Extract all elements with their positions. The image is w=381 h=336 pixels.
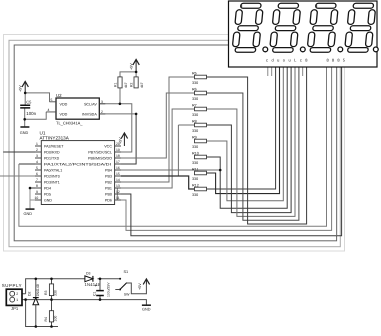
IC U2 — [46, 93, 105, 125]
wire R6 right to display — [207, 67, 299, 220]
svg-text:+5V: +5V — [138, 283, 142, 290]
wire digit1 net d1 — [19, 67, 327, 226]
digit 4 — [344, 3, 376, 52]
svg-text:VDD: VDD — [60, 102, 68, 106]
svg-text:330: 330 — [192, 113, 198, 117]
+5V arrow at U1 VCC — [121, 133, 127, 146]
+5V arrow above R2 — [133, 59, 139, 72]
wire SCL net U2.3 to U1.19 — [99, 104, 132, 152]
wire R1 bottom — [119, 88, 121, 104]
svg-text:330: 330 — [192, 129, 198, 133]
resistor R6 — [192, 87, 207, 101]
capacitor C5 — [20, 99, 36, 116]
svg-text:R1: R1 — [114, 83, 118, 87]
wire U1 pin8 stub link — [30, 187, 35, 189]
decimal point dp4 — [373, 47, 378, 52]
svg-text:SUPPLY: SUPPLY — [2, 283, 22, 288]
svg-text:9: 9 — [36, 190, 38, 194]
svg-text:4k7: 4k7 — [124, 82, 128, 88]
svg-text:5: 5 — [51, 98, 53, 102]
resistor R11 — [192, 167, 207, 181]
svg-text:PA1/XTAL2/PCINT9/SDA/DI: PA1/XTAL2/PCINT9/SDA/DI — [44, 162, 111, 166]
svg-text:330: 330 — [192, 193, 198, 197]
+5V arrow top-left — [22, 81, 28, 93]
GND symbol below U1 — [24, 209, 35, 216]
wire U1 pin2 left — [3, 151, 35, 153]
+5V arrow supply — [143, 279, 149, 285]
wire R12 right to display — [207, 67, 276, 189]
capacitor C1 — [93, 279, 111, 300]
wire pin13 to R7 — [121, 109, 195, 188]
resistor R4 — [44, 300, 57, 327]
wire U1 pin13 to pin11 row link — [116, 188, 118, 200]
svg-text:JP1: JP1 — [11, 306, 19, 311]
resistor R9 — [192, 135, 207, 149]
svg-text:16: 16 — [116, 166, 120, 170]
svg-text:4: 4 — [48, 108, 50, 112]
svg-text:330: 330 — [192, 177, 198, 181]
wire R9 right to display — [207, 67, 284, 201]
svg-text:R8: R8 — [192, 119, 197, 123]
svg-text:R2: R2 — [130, 83, 134, 87]
svg-text:GND: GND — [142, 307, 151, 311]
svg-text:R9: R9 — [192, 135, 197, 139]
svg-text:GND: GND — [24, 212, 33, 216]
wire gnd2 rail — [26, 300, 58, 327]
sheet frame outer — [4, 35, 345, 252]
wire C5 stems — [24, 93, 27, 127]
svg-text:GND: GND — [20, 131, 29, 135]
decimal point dp2 — [300, 47, 305, 52]
right pin stubs — [115, 146, 121, 200]
svg-text:7: 7 — [36, 178, 38, 182]
svg-text:VDD: VDD — [60, 112, 68, 116]
resistor R2 — [130, 77, 145, 88]
wire SDA net U2.2 to R2 junction — [99, 113, 136, 115]
svg-text:PD5: PD5 — [44, 192, 51, 196]
resistor R8 — [192, 119, 207, 133]
svg-text:PB4: PB4 — [105, 168, 112, 172]
junction D2 bottom rail — [35, 325, 38, 328]
svg-text:4k7: 4k7 — [140, 82, 144, 88]
wire digit2 net d2 U1.11 — [121, 67, 332, 230]
connector JP1 — [2, 283, 22, 311]
wire R10 right to display — [207, 67, 288, 208]
svg-text:PB1: PB1 — [105, 186, 112, 190]
wire R5 right to display — [207, 67, 307, 224]
svg-text:R5: R5 — [192, 71, 197, 75]
svg-text:PB7/SCK/SCL: PB7/SCK/SCL — [88, 150, 112, 154]
svg-text:330: 330 — [53, 290, 57, 296]
wire top rail +V — [26, 279, 85, 294]
wire pin15 dark to R12 — [121, 176, 195, 189]
wire R1 top / R2 top +5V bar — [120, 72, 136, 77]
svg-text:R3: R3 — [44, 290, 48, 295]
svg-text:S1: S1 — [124, 270, 129, 274]
display module LED1 — [229, 1, 379, 67]
svg-text:100: 100 — [53, 316, 57, 322]
svg-text:1N4148: 1N4148 — [36, 284, 40, 296]
decimal point dp3 — [338, 47, 343, 52]
svg-text:PB0: PB0 — [105, 192, 112, 196]
digit 1 — [232, 3, 264, 52]
digit orientation dots — [241, 5, 243, 7]
junction C5 bottom / U2 GND — [23, 118, 26, 121]
svg-text:SCL/AV: SCL/AV — [84, 102, 97, 106]
svg-text:PD4: PD4 — [44, 186, 51, 190]
resistor R3 — [44, 279, 57, 300]
wire R8 drop — [178, 125, 194, 176]
svg-text:U2: U2 — [56, 93, 62, 98]
svg-text:330: 330 — [192, 145, 198, 149]
junction R10 net / U1 pin16 wire — [219, 169, 222, 172]
svg-text:VCC: VCC — [104, 144, 112, 148]
svg-text:D2: D2 — [28, 291, 32, 296]
digit 2 — [269, 3, 301, 52]
junction C1 bottom — [99, 298, 102, 301]
svg-text:R10: R10 — [192, 151, 199, 155]
wire U1 pin6 left — [0, 175, 35, 177]
wire R11 right to display — [207, 67, 280, 194]
resistor R10 — [192, 151, 207, 165]
wire pin16 to R10 right side — [121, 169, 220, 171]
resistor R1 — [114, 77, 129, 88]
svg-text:PD1/TXD: PD1/TXD — [44, 156, 60, 160]
GND symbol supply — [142, 305, 151, 311]
wire R8 right to display — [207, 67, 292, 213]
svg-text:10: 10 — [35, 196, 39, 200]
wire SDA vertical to U1.17 — [121, 114, 136, 164]
svg-text:2: 2 — [16, 292, 18, 296]
GND symbol below C5 — [20, 127, 30, 135]
svg-text:14: 14 — [116, 178, 120, 182]
switch S1 — [115, 270, 146, 297]
digit 3 — [307, 3, 339, 52]
svg-text:11: 11 — [116, 196, 120, 200]
wire U1 pin4 to digit1 net — [19, 163, 35, 165]
svg-text:15: 15 — [116, 172, 120, 176]
left pin stubs — [35, 146, 41, 200]
svg-text:PD3/INT1: PD3/INT1 — [44, 180, 60, 184]
svg-text:PA0/XTAL1: PA0/XTAL1 — [44, 168, 62, 172]
svg-text:19: 19 — [116, 148, 120, 152]
svg-text:100n: 100n — [26, 111, 36, 116]
resistor R12 — [192, 183, 207, 197]
wire pin14 to R5 — [121, 77, 195, 182]
junction R4 bottom rail — [50, 325, 53, 328]
wire bottom rail — [26, 300, 147, 306]
wire U2 pin4 to GND — [25, 112, 47, 119]
pin numbers left — [35, 142, 39, 200]
display stub pins — [268, 67, 303, 76]
pin numbers right — [116, 142, 120, 200]
resistor R7 — [192, 103, 207, 117]
svg-text:+5V: +5V — [19, 85, 23, 92]
wire R7 right to display — [207, 67, 296, 216]
wire U1 pin8/pin10 to GND — [30, 188, 35, 209]
svg-text:R7: R7 — [192, 103, 197, 107]
svg-text:5: 5 — [36, 166, 38, 170]
sheet frame inner — [14, 45, 336, 241]
svg-text:4: 4 — [36, 160, 38, 164]
svg-text:1N4148: 1N4148 — [85, 282, 101, 287]
junction U1 pin8 GND — [29, 187, 32, 190]
svg-text:PD0/RXD: PD0/RXD — [44, 150, 60, 154]
svg-text:INV/SDA: INV/SDA — [82, 112, 97, 116]
svg-text:PD2/INT0: PD2/INT0 — [44, 174, 60, 178]
svg-text:SW: SW — [124, 293, 130, 297]
svg-text:2: 2 — [101, 110, 103, 114]
diode D3 — [85, 272, 101, 288]
svg-text:330: 330 — [192, 97, 198, 101]
svg-text:D3: D3 — [86, 272, 91, 276]
junction R1 R2 tops +5V — [135, 71, 138, 74]
svg-text:17: 17 — [116, 160, 120, 164]
svg-text:TL_CH0341A_: TL_CH0341A_ — [56, 120, 83, 125]
junction R1 bottom / SCL net — [119, 103, 122, 106]
svg-text:R4: R4 — [44, 317, 48, 322]
wire +5V rail to C5/U2 — [25, 93, 49, 102]
svg-text:330: 330 — [192, 81, 198, 85]
junction R2 bottom / SDA net — [135, 113, 138, 116]
resistor R5 — [192, 71, 207, 85]
svg-text:8: 8 — [36, 184, 38, 188]
svg-text:+5V: +5V — [119, 137, 123, 144]
junction R3 bottom / R4 top — [50, 298, 53, 301]
svg-text:PB3: PB3 — [105, 174, 112, 178]
svg-text:PB2: PB2 — [105, 180, 112, 184]
svg-text:R11: R11 — [192, 167, 199, 171]
svg-text:6: 6 — [36, 172, 38, 176]
svg-text:+5V: +5V — [130, 63, 134, 70]
svg-text:330: 330 — [192, 161, 198, 165]
svg-text:1: 1 — [16, 298, 18, 302]
svg-text:ATTINY2313A: ATTINY2313A — [40, 136, 70, 141]
svg-text:C1: C1 — [93, 291, 97, 296]
junction R3 top on +V rail — [50, 278, 53, 281]
IC U1 ATTINY2313A — [35, 130, 122, 204]
junction JP1 pin1 node — [24, 298, 27, 301]
junction C1 top on +V rail — [99, 278, 102, 281]
supply rails — [22, 279, 146, 327]
svg-text:3: 3 — [101, 100, 103, 104]
wire digit4 net d4 — [336, 67, 338, 236]
svg-text:C5: C5 — [26, 99, 32, 104]
sheet frame middle — [9, 40, 340, 246]
svg-text:100u/25V: 100u/25V — [107, 282, 111, 297]
svg-text:R12: R12 — [192, 183, 199, 187]
svg-text:1: 1 — [36, 142, 38, 146]
wire digit3 net d3 U1.12 — [121, 67, 342, 236]
svg-text:18: 18 — [116, 154, 120, 158]
svg-text:PA2/RESET: PA2/RESET — [44, 144, 64, 148]
pin labels inside — [44, 144, 111, 202]
diode D2 — [28, 279, 41, 327]
decimal point dp1 — [263, 47, 268, 52]
junction D2 top on +V rail — [35, 278, 38, 281]
svg-text:3: 3 — [36, 154, 38, 158]
svg-text:12: 12 — [116, 190, 120, 194]
svg-text:GND: GND — [44, 198, 52, 202]
junction +5V / C5 top — [24, 92, 27, 95]
wire U1 right bus to resistors — [121, 77, 220, 188]
svg-text:PB6/MISO/DO: PB6/MISO/DO — [88, 156, 112, 160]
wire pin18 to R6 — [121, 93, 195, 158]
svg-text:13: 13 — [116, 184, 120, 188]
svg-text:PD6: PD6 — [105, 198, 112, 202]
svg-text:R6: R6 — [192, 87, 197, 91]
svg-text:2: 2 — [36, 148, 38, 152]
